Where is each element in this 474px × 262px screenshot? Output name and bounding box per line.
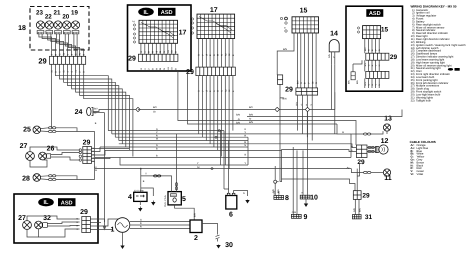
svg-text:29: 29 (80, 209, 88, 216)
wire to ground mid (141, 188, 154, 196)
svg-text:Gr: Gr (228, 89, 231, 92)
light switch grid 17 (197, 14, 235, 38)
front stoplight switch connector 31 (352, 215, 361, 219)
svg-text:G: G (300, 82, 303, 84)
bullet connectors horn (368, 146, 375, 152)
generator ground wire (122, 232, 124, 241)
svg-text:29: 29 (390, 54, 398, 61)
ignition switch grid 17 (139, 20, 178, 43)
low beam bulb 27 (26, 152, 35, 161)
vertical wire B parking lights (94, 132, 96, 180)
svg-text:B/N: B/N (236, 114, 240, 117)
svg-text:9: 9 (304, 214, 308, 221)
svg-text:G: G (75, 53, 78, 55)
connector 29 pin bullets (79, 149, 81, 161)
wire 10 ground (305, 199, 307, 203)
wire from ASD box bottom (334, 92, 336, 109)
multiple connector 29 (left dashboard) (50, 56, 86, 64)
spark plug wire (217, 239, 219, 242)
fuse 5 wire to coil 2 (175, 205, 195, 220)
low beam bulb 27 (box) (23, 221, 32, 230)
bulb 14 terminals (328, 54, 336, 58)
svg-text:Gr: Gr (311, 81, 314, 84)
bullet connector on Y wire (154, 175, 161, 177)
switch 15 left pin markers (280, 17, 287, 32)
wire Ar from connector (91, 161, 94, 163)
svg-text:B/N: B/N (348, 80, 351, 84)
svg-text:G: G (244, 128, 246, 131)
lamp 13 second leg (386, 131, 388, 134)
dimmer switch 15 (292, 17, 319, 33)
warning lamp 21 (54, 21, 62, 29)
bulb 32 (35, 221, 43, 229)
svg-text:G: G (77, 228, 79, 231)
svg-text:G/N: G/N (328, 54, 331, 58)
svg-text:23: 23 (36, 10, 43, 17)
multiple connector 29 (rear) (353, 191, 361, 200)
bullet connectors 13 (364, 133, 371, 135)
wire B/N from switch 15 to lamp connector (277, 33, 294, 75)
wire B/N below bullet connector (280, 84, 284, 98)
svg-text:ASD: ASD (61, 200, 73, 206)
svg-text:10: 10 (310, 195, 318, 202)
lamp 19 socket (72, 31, 79, 34)
front left indicator lamp 28 (33, 174, 41, 182)
svg-text:ASD: ASD (369, 11, 381, 17)
wires connector 29 headlamp to right (90, 219, 104, 222)
svg-text:G: G (198, 90, 201, 92)
wire to junction node (279, 98, 281, 182)
warning lamp 23 (36, 21, 44, 29)
svg-text:8: 8 (285, 195, 289, 202)
svg-text:G: G (71, 71, 74, 73)
wires between ASD connectors (364, 60, 366, 71)
svg-text:Vi:: Vi: (411, 173, 414, 176)
svg-text:m: m (284, 27, 286, 30)
svg-text:G: G (156, 128, 158, 131)
svg-text:G: G (140, 68, 143, 70)
wire Az to 11 (351, 169, 363, 173)
svg-text:Gr: Gr (94, 112, 97, 115)
ground below 10 (304, 203, 308, 207)
svg-text:B/V: B/V (296, 101, 299, 105)
svg-text:15: 15 (381, 27, 389, 34)
svg-text:B/V: B/V (94, 108, 98, 111)
warning lamp 22 (45, 21, 53, 29)
svg-text:29: 29 (285, 87, 293, 94)
svg-text:B/V: B/V (364, 47, 367, 51)
connector 9 (291, 214, 301, 218)
wire lamp 28 join (56, 176, 77, 180)
svg-text:B/N: B/N (277, 189, 280, 193)
multiple connector 29 (headlamp) (82, 217, 91, 233)
svg-text:G/R: G/R (353, 208, 356, 212)
svg-text:20: 20 (62, 14, 69, 21)
bulb 14 wire 1 (331, 52, 333, 65)
rear light 13 (383, 124, 390, 131)
wires from dimmer connector 29 down (297, 95, 299, 131)
fuse 5 (168, 192, 181, 205)
neutral switch 24 symbol (87, 107, 93, 115)
svg-text:31: 31 (365, 214, 373, 221)
svg-text:24: 24 (75, 109, 83, 116)
wires lamps 19-23 to connector 29 (39, 34, 52, 56)
wire B/V to bulb wire (310, 109, 335, 111)
svg-text:IL: IL (144, 10, 150, 16)
wires switch 15 to connector 29 (296, 33, 298, 88)
wire node to connector 8 (274, 183, 276, 195)
inline connector on fuse feed (175, 183, 177, 190)
wiring diagram key list (411, 9, 466, 103)
wire M to horn connector (343, 144, 356, 148)
lamp 21 socket (55, 31, 62, 34)
svg-text:M: M (217, 90, 220, 92)
connector 10 (300, 195, 310, 199)
horn wire 2 (367, 151, 376, 153)
horn 12 (376, 145, 389, 154)
svg-text:IL: IL (44, 200, 50, 206)
ground battery 6 (245, 200, 249, 204)
svg-text:B/R: B/R (194, 213, 197, 217)
bullet connectors lamp 28 lower (49, 178, 56, 180)
svg-text:Gr: Gr (63, 53, 66, 56)
low/high beam bulb 14 (329, 40, 339, 52)
wires into 29 rear from top (356, 169, 358, 191)
Y wire with inline connector to fuse 5 (141, 176, 172, 186)
node link (277, 181, 279, 183)
multiple connector 29 (ASD lower) (366, 71, 389, 78)
svg-text:Gr: Gr (171, 50, 174, 53)
svg-text:18: 18 (18, 25, 26, 32)
dimmer switch 15 (ASD) (363, 26, 381, 39)
wire B bus to 13 (95, 157, 351, 159)
lamp 26 (39, 152, 47, 160)
ASD variant box (top right) (346, 6, 403, 91)
battery 4 ground wire (139, 201, 141, 205)
svg-text:B/V: B/V (153, 106, 157, 109)
multiple connector 29 (front left) (83, 147, 92, 164)
warning lamp 19 (71, 21, 79, 29)
svg-text:G: G (198, 54, 201, 56)
warning lamp 20 (63, 21, 71, 29)
multiple connector 29 (light switch) (196, 67, 235, 76)
cable colours list (411, 144, 429, 176)
connector 8 (274, 196, 284, 200)
wire lamp 28 b (40, 178, 48, 181)
dashboard warning lights dashed enclosure 18 (30, 7, 89, 51)
svg-text:2: 2 (194, 235, 198, 242)
lamp 26 socket (47, 154, 51, 158)
vertical drops from bus to bottom components (176, 134, 178, 186)
svg-text:G: G (367, 64, 370, 66)
svg-text:G: G (367, 49, 370, 51)
multiple connector 29 (horn) (356, 145, 367, 158)
wire connector to 11 (371, 172, 384, 174)
junction node (diamond) on B/V wire (136, 107, 140, 111)
generator 1 (115, 218, 130, 233)
wire Gr from 24 (93, 112, 105, 114)
svg-text:B/N: B/N (236, 121, 240, 124)
svg-text:17: 17 (210, 7, 218, 14)
ground mid (151, 201, 155, 206)
svg-text:M: M (217, 54, 220, 56)
battery 6 positive wire (224, 189, 229, 193)
wire to bullet connector ASD (352, 64, 354, 72)
wires to 9/10 (292, 190, 294, 214)
battery 4 (134, 192, 147, 201)
svg-text:B/V: B/V (296, 80, 299, 84)
wire B/N bus lower (247, 110, 402, 117)
battery 6 (226, 196, 237, 210)
svg-text:G: G (140, 51, 143, 53)
svg-text:27: 27 (20, 143, 28, 150)
key icons IL ASD at line 22 (448, 68, 453, 71)
svg-text:B/N: B/N (359, 208, 362, 212)
svg-text:G/R: G/R (272, 189, 275, 193)
multiple connector 29 (ASD upper) (366, 53, 389, 60)
svg-text:5: 5 (182, 196, 186, 203)
svg-text:14: 14 (330, 31, 338, 38)
svg-text:17: 17 (179, 30, 187, 37)
svg-text:Taillight bulb: Taillight bulb (416, 99, 431, 102)
wire lamp 25 a (40, 127, 48, 130)
svg-text:ASD: ASD (161, 10, 173, 16)
wire connector to 13 (371, 131, 383, 134)
svg-text:FUS. 7,5 A: FUS. 7,5 A (164, 195, 167, 207)
svg-text:B/V: B/V (249, 106, 253, 109)
switch 15 ASD pin markers (357, 27, 359, 33)
wire lamp 28 to right (56, 179, 95, 181)
multiple connector 29 (dimmer) (296, 88, 318, 95)
lamp 23 socket (37, 31, 44, 34)
bullet connectors lamp 28 upper (49, 175, 56, 177)
fuse 5 wire in (171, 186, 173, 192)
svg-text:26: 26 (47, 146, 55, 153)
bullet connectors lamp 25 upper (49, 127, 56, 129)
svg-text:G: G (367, 84, 370, 86)
wire B to 13 (351, 134, 364, 158)
svg-text:Gr: Gr (171, 67, 174, 70)
svg-text:25: 25 (23, 127, 31, 134)
svg-text:B/V: B/V (364, 81, 367, 85)
svg-text:M: M (156, 138, 158, 141)
bullet connectors lamp 25 lower (49, 130, 56, 132)
svg-text:Gr: Gr (63, 70, 66, 73)
wire B/N 2 (188, 71, 338, 124)
svg-text:32): 32) (411, 99, 415, 102)
wire node up to bus and horn (280, 150, 356, 182)
svg-text:6: 6 (229, 212, 233, 219)
ignition coil 2 (190, 220, 202, 233)
ground below battery 4 (138, 207, 142, 212)
svg-text:G: G (300, 104, 303, 106)
front parking lamp 25 (33, 126, 41, 134)
bulb 32 socket (43, 223, 48, 228)
svg-text:B/N: B/N (249, 114, 253, 117)
svg-text:Gr: Gr (228, 53, 231, 56)
main harness horizontal wires (108, 130, 224, 132)
ground below generator (120, 241, 124, 249)
wire B/V bus 2 (279, 109, 305, 111)
svg-text:B/V: B/V (364, 62, 367, 66)
svg-text:Ar: Ar (238, 118, 241, 121)
svg-text:15: 15 (300, 8, 308, 15)
bulb 14 wire 2 (334, 52, 336, 65)
svg-text:M: M (159, 68, 162, 70)
svg-text:29: 29 (357, 159, 365, 166)
wire lamp 28 a (40, 175, 48, 178)
svg-text:B/N: B/N (356, 80, 359, 84)
wire 24 B/V (93, 110, 136, 112)
wire pin1 of 29 down (51, 64, 53, 128)
spark gap (216, 235, 220, 239)
horn wire 1 (367, 147, 376, 149)
switch 17 contact diagonal (141, 23, 175, 39)
svg-text:G: G (93, 157, 95, 160)
svg-text:4: 4 (128, 194, 132, 201)
svg-text:28: 28 (22, 176, 30, 183)
svg-text:G/M: G/M (292, 211, 296, 214)
wire lamp 25 join (56, 128, 77, 132)
wires 15 ASD to connector (364, 39, 366, 54)
lamp 22 socket (46, 31, 53, 34)
fuse 5 wire in 2 (176, 186, 178, 192)
wires from connector 29 right (91, 148, 129, 150)
instrument box (IL/ASD) containing switch 17 (128, 5, 192, 71)
switch 17 left pin markers (133, 24, 135, 43)
wires connector 29 to main harness (56, 64, 109, 130)
svg-text:12 V 4 Ah: 12 V 4 Ah (134, 189, 145, 192)
wire to node (274, 166, 276, 180)
ASD badge (366, 9, 383, 17)
svg-text:30: 30 (225, 242, 233, 249)
bullet connectors 11 (364, 171, 371, 173)
svg-text:G: G (59, 53, 62, 55)
wires connector 29b down to harness (198, 76, 200, 134)
svg-text:B/N: B/N (249, 121, 253, 124)
rear right indicator 11 (383, 169, 390, 176)
arrow terminal right of headlamp box (104, 113, 106, 226)
wire to rear connector 29 (282, 179, 356, 191)
svg-text:B/N: B/N (283, 48, 287, 51)
svg-text:M: M (244, 141, 246, 144)
ground spark plug 30 (216, 245, 220, 249)
bullet connector (high/low beam) (278, 75, 283, 85)
svg-text:12: 12 (381, 138, 389, 145)
wires switch 17 to connector 29 (140, 43, 142, 54)
multiple connector 29 (ignition switch) (138, 54, 178, 61)
svg-text:29: 29 (83, 140, 91, 147)
svg-text:Y: Y (145, 173, 147, 176)
wires bulbs to connector 29 (headlamp) (27, 216, 80, 221)
Y and Az wires (120, 158, 248, 166)
svg-text:M: M (159, 51, 162, 53)
left end labels of lower bus (236, 114, 240, 125)
wire B/V bus (138, 109, 275, 111)
svg-text:29: 29 (128, 56, 136, 63)
switch 17b left pin markers (191, 18, 193, 34)
wires ASD connector down (364, 78, 366, 88)
IL and ASD badges (headlamp) (38, 198, 75, 206)
wire M bus (119, 143, 343, 145)
wire lamp 25 to B node (56, 131, 95, 133)
headlamp box (IL/ASD variant) (14, 194, 98, 243)
svg-text:29: 29 (362, 193, 370, 200)
battery 6 negative wire (234, 191, 248, 197)
svg-text:19: 19 (71, 10, 78, 17)
svg-text:22: 22 (45, 14, 52, 21)
spark plug 30 wire (202, 224, 218, 235)
generator output wires (130, 221, 190, 223)
lamp 20 socket (63, 31, 70, 34)
svg-text:G: G (140, 219, 142, 222)
svg-text:Gr: Gr (153, 110, 156, 113)
switch 17b contact diagonal (199, 17, 232, 34)
wires 29 rear to 31 (354, 199, 356, 214)
wire lamp 25 b (40, 130, 48, 133)
svg-text:21: 21 (54, 10, 61, 17)
wires light switch to connector 29 (198, 39, 200, 68)
svg-text:29: 29 (38, 57, 46, 66)
wires lamps 27/26 to connector 29 (30, 147, 79, 152)
svg-text:Violet: Violet (417, 173, 424, 176)
junction node circle (274, 180, 277, 183)
bullet connector B/N (ASD) (351, 72, 355, 80)
IL and ASD badges (138, 8, 175, 16)
svg-text:1: 1 (111, 227, 115, 234)
battery 4 supply wire from Az junction (140, 169, 142, 193)
wires bulb 14 down to junctions (331, 65, 333, 110)
wire drop to 13 wire (337, 124, 351, 134)
